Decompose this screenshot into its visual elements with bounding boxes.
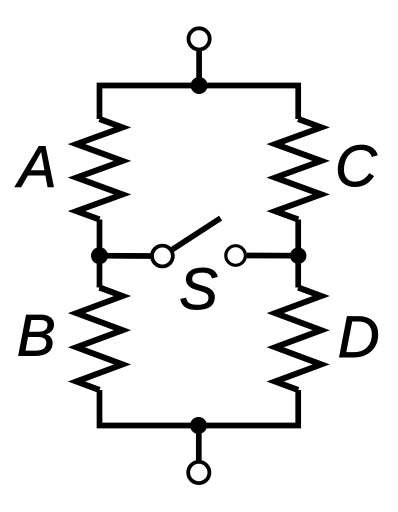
switch S pole contact [152,246,173,267]
node bottom junction [190,417,207,434]
terminal T2 (bottom) [188,462,209,483]
node right junction [290,248,306,264]
terminal T1 (top) [189,28,210,49]
resistor D [275,288,321,391]
resistor A [77,119,123,220]
node top junction [191,77,208,94]
wire switch throw to right junction [247,253,298,259]
wire top horizontal [100,86,299,120]
wire bottom node to bottom terminal [196,426,202,462]
wire bottom horizontal [100,390,299,426]
wire left junction to switch pole [100,253,151,259]
node left junction [91,247,108,264]
wire top terminal to top node [196,49,202,85]
resistor C [275,119,321,220]
svg-text:A: A [15,135,57,200]
svg-text:C: C [335,134,378,199]
svg-text:S: S [179,257,218,322]
svg-text:D: D [338,305,380,370]
switch S throw contact [226,246,246,266]
wire right branch C to D [295,220,301,288]
switch S lever [173,218,221,249]
resistor B [77,288,123,391]
wire left branch A to B [97,220,103,288]
svg-text:B: B [17,303,56,368]
